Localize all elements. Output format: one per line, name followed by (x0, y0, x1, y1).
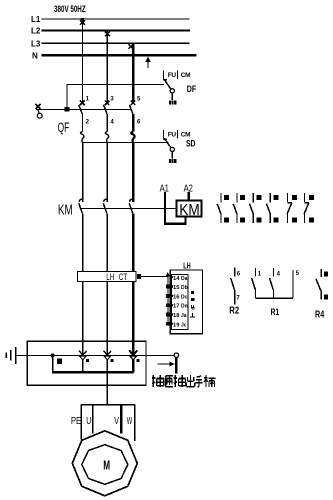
svg-text:KM: KM (179, 202, 199, 219)
wire phase A drop (82, 19, 84, 102)
char 手 (196, 376, 203, 387)
wire CT to terminal strip (141, 276, 169, 278)
label LH (terminal strip) (183, 263, 190, 271)
fuse FU (SD branch) (164, 130, 178, 140)
breaker QF pole 2 (104, 101, 110, 143)
svg-text:DF: DF (187, 84, 196, 94)
char 屉 (166, 376, 174, 387)
contact R2 (231, 267, 235, 304)
label SD (186, 139, 196, 149)
node QF linkage junction (65, 107, 70, 111)
aux contact KM 3 (NO) (250, 193, 254, 223)
label 抽屉抽出手柄 (hand-drawn strokes) (152, 375, 216, 387)
svg-text:U: U (86, 414, 91, 426)
node N tap arrow (145, 57, 151, 69)
breaker QF pole 1 (79, 101, 85, 143)
terminal 17 (166, 303, 170, 307)
wire QF handle rail (67, 108, 131, 110)
drawer contact phase A (79, 341, 86, 372)
label R4 (315, 308, 324, 319)
terminal 18 (166, 313, 170, 317)
bus N (42, 54, 197, 56)
svg-text:R2: R2 (229, 305, 239, 316)
wire PE drop (52, 355, 54, 372)
wire drawer bus (thick) (52, 371, 133, 374)
svg-text:LH: LH (106, 272, 114, 282)
label PE (71, 415, 81, 426)
terminal 15 (166, 285, 170, 289)
svg-text:Dn: Dn (181, 304, 188, 310)
contact R4 (316, 269, 322, 300)
svg-text:W: W (127, 414, 132, 426)
contactor KM pole 3 (thick) (129, 199, 133, 341)
svg-text:SD: SD (186, 139, 196, 149)
PE terminal square (57, 359, 62, 364)
char 柄 (204, 375, 215, 387)
SD terminal hatch (169, 159, 177, 163)
char 出 (187, 375, 195, 387)
svg-text:16: 16 (173, 294, 180, 300)
motor terminal box (81, 405, 135, 441)
label A1 (160, 182, 169, 193)
wire phase B drop (106, 30, 108, 101)
wire A2 lead (188, 192, 190, 201)
svg-text:R4: R4 (315, 308, 324, 319)
wire motor lead (106, 374, 108, 405)
svg-text:QF: QF (58, 121, 70, 135)
svg-text:L3: L3 (31, 39, 41, 48)
aux contact KM 4 (NO) (267, 193, 271, 223)
label U (86, 414, 91, 426)
wire phase A QF to KM (82, 143, 84, 202)
terminal strip inner box (171, 275, 188, 330)
motor M inner octagon (82, 445, 128, 485)
svg-text:14: 14 (173, 276, 180, 282)
contactor KM pole 2 (103, 199, 107, 341)
label M (103, 459, 110, 473)
label QF (58, 121, 70, 135)
contactor KM pole 1 (79, 199, 83, 341)
label R2 (229, 305, 239, 316)
svg-text:Da: Da (181, 276, 188, 282)
tap node L2 (105, 31, 110, 36)
wire SD rail (83, 142, 169, 144)
breaker QF pole 3 (thick) (129, 101, 135, 143)
svg-text:FU: FU (168, 72, 177, 79)
svg-text:KM: KM (58, 202, 73, 218)
fuse FU (DF branch) (164, 70, 178, 80)
svg-text:19: 19 (173, 322, 180, 328)
svg-text:FU: FU (168, 132, 177, 139)
svg-text:Dc: Dc (181, 294, 188, 300)
drawer unit box (27, 341, 146, 385)
motor M outer octagon (72, 431, 137, 496)
wire PE bus (16, 354, 175, 356)
wire phase C drop (thick) (132, 43, 135, 102)
svg-text:L2: L2 (31, 27, 41, 36)
svg-text:R1: R1 (271, 307, 280, 317)
label V (114, 414, 119, 426)
bus L2 (42, 29, 191, 31)
CT box LH CT (78, 271, 141, 282)
bus L3 (42, 42, 190, 44)
arrow handle direction (158, 361, 175, 366)
svg-text:V: V (114, 414, 119, 426)
char 抽 (152, 375, 164, 387)
terminal 14 (170, 276, 173, 279)
aux contact KM 5 (NC) (287, 193, 292, 223)
switch SD (164, 138, 174, 158)
node PE junction (51, 353, 55, 357)
svg-text:N: N (32, 51, 38, 60)
svg-text:CM: CM (181, 72, 190, 79)
contact R1 (252, 268, 294, 298)
tap node L1 (80, 18, 85, 25)
svg-text:CM: CM (181, 132, 190, 139)
label 380V 50HZ (54, 4, 86, 15)
terminal 16 (166, 294, 170, 298)
label DF (187, 84, 196, 94)
svg-text:380V 50HZ: 380V 50HZ (54, 4, 86, 15)
terminal strip outer box (170, 270, 202, 334)
aux contact KM 2 (NO) (233, 193, 237, 223)
drawer contact phase B (104, 341, 111, 372)
label A2 (184, 182, 193, 193)
char 抽 (174, 375, 186, 387)
aux contact KM 6 (NC) (304, 193, 309, 223)
wire QF linkage top rail (67, 85, 164, 110)
wire KM linkage rail (81, 207, 177, 209)
label KM (58, 202, 73, 218)
switch DF (164, 80, 174, 101)
drawer contact phase C (thick) (129, 341, 137, 372)
svg-text:18: 18 (173, 313, 180, 319)
svg-text:Ja: Ja (181, 313, 187, 319)
ground PE (6, 347, 15, 364)
svg-text:Jc: Jc (181, 322, 187, 328)
tap node L3 (129, 44, 133, 48)
terminal strip entry arrow (166, 272, 170, 281)
label R1 (271, 307, 280, 317)
coil KM (177, 200, 202, 219)
terminal 19 (166, 322, 170, 326)
svg-text:15: 15 (173, 285, 180, 291)
wire handle stem (175, 358, 177, 374)
svg-text:PE: PE (71, 415, 81, 426)
svg-text:L1: L1 (31, 15, 41, 24)
wire phase B QF to KM (106, 143, 108, 202)
aux contact KM 1 (NO) (217, 193, 221, 223)
DF terminal hatch (169, 100, 177, 104)
svg-text:CT: CT (119, 272, 128, 282)
QF handle (36, 104, 68, 118)
wire phase C QF to KM (thick) (132, 143, 135, 202)
wire A1 lead (164, 192, 166, 225)
svg-text:Db: Db (181, 285, 188, 291)
svg-text:M: M (103, 459, 110, 473)
terminal strip left bus (167, 281, 169, 324)
svg-text:17: 17 (173, 304, 179, 310)
label W (127, 414, 132, 426)
strip side marks (190, 291, 195, 317)
node drawer handle terminal (174, 353, 178, 357)
bus L1 (42, 18, 190, 20)
